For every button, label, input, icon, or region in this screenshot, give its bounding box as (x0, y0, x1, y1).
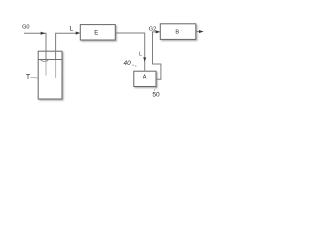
svg-text:T: T (26, 74, 31, 81)
svg-text:L: L (69, 26, 73, 33)
svg-text:E: E (94, 31, 98, 37)
svg-text:40: 40 (124, 60, 132, 67)
svg-text:A: A (143, 75, 147, 81)
svg-text:G0: G0 (22, 25, 29, 31)
svg-text:G2: G2 (149, 26, 156, 32)
svg-text:B: B (175, 30, 179, 36)
svg-text:L: L (139, 51, 142, 57)
svg-text:50: 50 (152, 92, 160, 99)
